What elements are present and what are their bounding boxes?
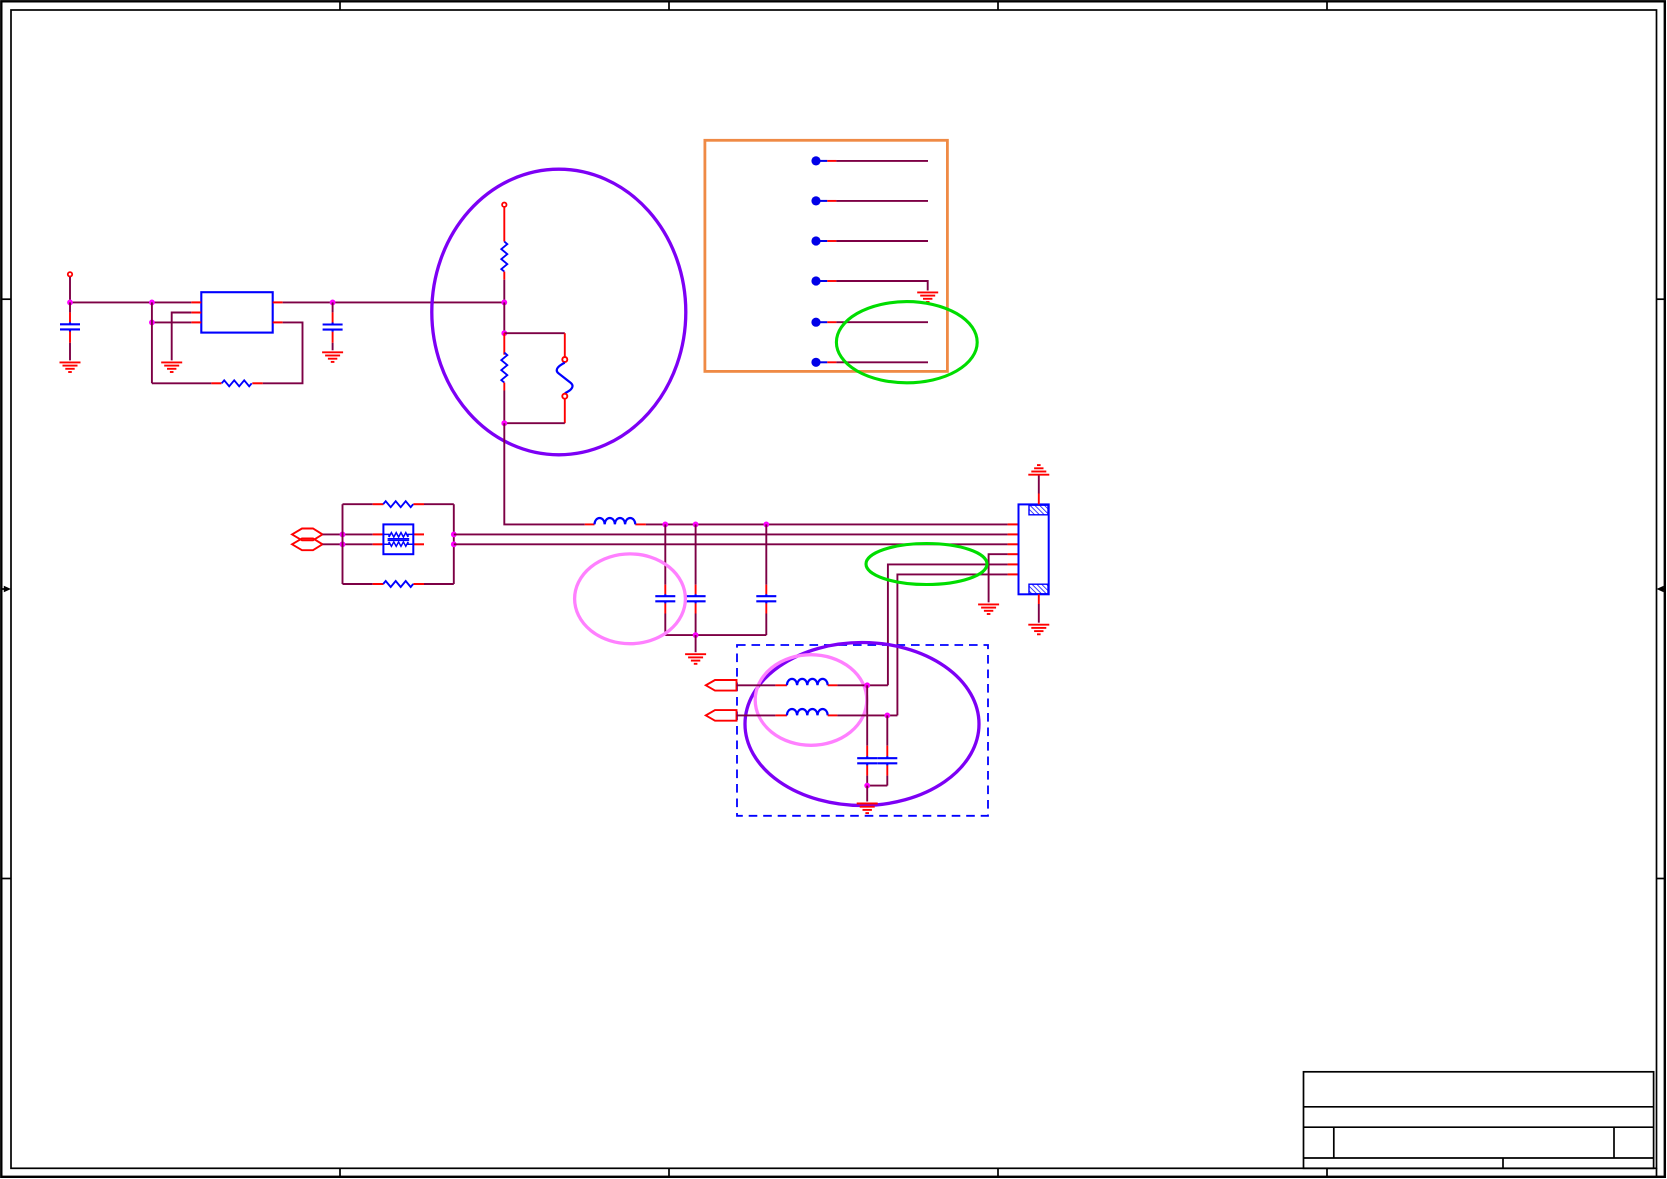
wire line A to connector [454, 533, 1008, 535]
capacitor C4 [686, 594, 706, 603]
junction parallel top [501, 330, 507, 336]
wire D1 right segment [828, 684, 888, 686]
wire D1 left segment [737, 684, 787, 686]
junction pin3 column [149, 320, 155, 326]
pink annotation ellipse 1 [575, 554, 686, 644]
wire line A from P3 [323, 533, 373, 535]
junction A right [451, 532, 457, 538]
port P2 open terminal [502, 203, 506, 207]
junction C5 tap [763, 522, 769, 528]
top zone ticks [340, 1, 1327, 10]
right zone ticks [1657, 299, 1666, 878]
wire divider mid [503, 302, 505, 333]
left zone ticks [1, 299, 11, 878]
inductor L2 [787, 679, 828, 685]
junction at feedback column [149, 300, 155, 306]
connector J2 body [1019, 504, 1049, 594]
capacitor C1 leads [69, 302, 71, 360]
junction B right [451, 541, 457, 547]
wire U1 pin2 to ground [172, 313, 192, 361]
junction at C2 top [330, 300, 336, 306]
capacitor C5 leads [765, 524, 767, 635]
inductor L3 [787, 709, 828, 715]
resistor R2 bottom lead [503, 272, 505, 303]
wire feedback bottom [152, 382, 211, 384]
wire network bottom with resistor R5 [343, 583, 454, 585]
resistor R2 top lead [503, 207, 505, 241]
wire line B from P4 [323, 543, 373, 545]
transformer T1 box [383, 524, 413, 554]
orange annotation rectangle [705, 140, 948, 371]
wire supply rail to connector [646, 523, 1008, 525]
green annotation ellipse 1 [836, 302, 977, 383]
wire parallel bottom branch [504, 422, 565, 424]
ground on J2 pin4 [978, 604, 999, 614]
purple annotation ellipse 1 [432, 169, 686, 455]
jumper J1 wavy element [557, 363, 573, 394]
pink annotation ellipse 2 [755, 655, 867, 746]
capacitor C5 [756, 594, 776, 603]
resistor R4 [383, 501, 413, 507]
resistor R5 [383, 581, 413, 587]
connector J2 top mounting pad [1029, 505, 1048, 515]
wire J2 pin4 to ground [989, 554, 1008, 602]
header pin 6 [811, 358, 928, 367]
bottom zone ticks [340, 1169, 1327, 1178]
junction common ground tap [693, 632, 699, 638]
junction A left [340, 532, 346, 538]
ground under filter capacitors [685, 654, 706, 664]
port P4 hexagon [292, 538, 323, 550]
wire J2 bottom pad to ground [1038, 594, 1040, 622]
junction pair ground tap [864, 783, 870, 789]
junction C3 tap [662, 522, 668, 528]
header pin 3 [811, 236, 928, 245]
header pin 1 [811, 156, 928, 165]
resistor R3 [501, 353, 507, 383]
ground under U1 pin2 [161, 362, 182, 372]
jumper J1 bottom pin circle [562, 394, 567, 399]
wire U1 pin3 [152, 321, 191, 323]
U1 pin stubs [191, 302, 282, 322]
wire parallel top branch [504, 332, 565, 334]
wire D2 left segment [737, 714, 787, 716]
regulator U1 box [201, 292, 272, 332]
header pin 4 with ground [811, 276, 927, 290]
wire network right column [453, 504, 455, 584]
wire main rail left segment [70, 301, 191, 303]
port P1 open terminal [68, 272, 72, 276]
junction C7 tap [884, 713, 890, 719]
jumper J1 top pin circle [562, 357, 567, 362]
right centerline arrow [1657, 586, 1666, 592]
wire to filter ground [695, 635, 697, 652]
wire network top with resistor R4 [343, 503, 454, 505]
ground above J2 (inverted) [1028, 465, 1049, 475]
ground under C2 [322, 352, 343, 362]
wire divider down to filter rail [504, 423, 585, 524]
header pin 5 [811, 318, 928, 327]
resistor R1 feedback stubs [211, 382, 262, 384]
dashed annotation rectangle [737, 645, 988, 816]
connector J2 pin stubs [1008, 524, 1019, 574]
left centerline arrow [1, 586, 11, 592]
resistor R3 bottom lead [503, 383, 505, 424]
wire U1 pin5 feedback loop [263, 322, 303, 383]
resistor R1 feedback [222, 380, 252, 386]
junction B left [340, 541, 346, 547]
ground on header pin 4 [917, 292, 938, 302]
connector J2 bottom mounting pad [1029, 584, 1048, 594]
ground under C1 [60, 362, 81, 372]
purple annotation ellipse 2 [745, 643, 979, 806]
junction parallel bottom [501, 420, 507, 426]
wire capacitor common bottom [665, 634, 766, 636]
port P5 arrow [706, 680, 737, 691]
header pin 2 [811, 196, 928, 205]
wire P1 down to main rail [69, 277, 71, 302]
junction main rail / divider [501, 300, 507, 306]
green annotation ellipse 2 [866, 544, 987, 585]
capacitor C7 leads [886, 715, 888, 785]
wire main rail right segment [283, 301, 505, 303]
junction at C1 top [67, 300, 73, 306]
capacitor C7 [877, 756, 897, 765]
wire J2 top pad to ground [1038, 476, 1040, 505]
capacitor C6 leads [866, 685, 868, 785]
junction C4 tap [693, 522, 699, 528]
transformer T1 pin stubs [373, 534, 424, 544]
wire capacitor pair bottom [867, 785, 887, 787]
junction C6 tap [864, 682, 870, 688]
ground under capacitor pair [857, 804, 878, 814]
wire feedback left column [151, 302, 153, 383]
jumper J1 bottom lead [564, 399, 566, 423]
capacitor C6 [857, 756, 877, 765]
capacitor C3 [655, 594, 675, 603]
port P3 hexagon [292, 529, 323, 541]
resistor R3 top lead [503, 333, 505, 355]
capacitor C4 leads [695, 524, 697, 635]
wire line B to connector [454, 543, 1008, 545]
inductor L1 stubs [585, 523, 646, 525]
wire network left column [342, 504, 344, 584]
inner frame bottom-right extension strip [1327, 1168, 1657, 1177]
ground below J2 [1028, 625, 1049, 635]
jumper J1 top lead [564, 333, 566, 356]
wire D2 right segment [828, 714, 898, 716]
title block [1304, 1072, 1654, 1169]
capacitor C2 [323, 323, 343, 332]
port P6 arrow [706, 710, 737, 721]
capacitor C1 [60, 322, 80, 331]
wire to pair ground [866, 786, 868, 802]
wire J2 pin5 to signal D1 [888, 564, 1008, 685]
resistor R2 [501, 242, 507, 272]
capacitor C3 leads [664, 524, 666, 635]
transformer T1 windings [383, 533, 413, 547]
wire J2 pin6 to signal D2 [897, 574, 1007, 715]
inductor L1 [595, 518, 636, 524]
capacitor C2 leads [332, 302, 334, 350]
